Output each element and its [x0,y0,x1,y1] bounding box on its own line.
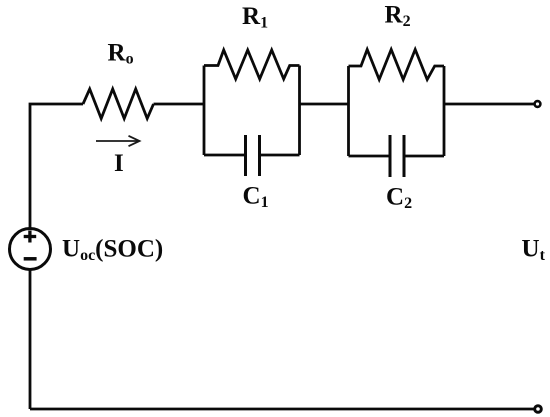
svg-text:R1: R1 [242,3,268,32]
wire between RC blocks [300,103,349,106]
node left of R1C1 block [203,66,206,156]
wire bottom [30,408,534,411]
wire left vertical top [30,104,83,228]
capacitor C1 [204,135,300,176]
terminal bottom right [535,406,542,413]
resistor R2 [349,50,445,80]
voltage source Uoc [10,229,51,270]
svg-text:Ut: Ut [522,236,546,265]
resistor Ro [83,89,154,119]
terminal top right [535,101,541,107]
svg-text:C1: C1 [243,183,269,212]
current arrow I [96,136,140,146]
svg-text:R2: R2 [385,2,411,31]
svg-text:I: I [114,150,124,177]
capacitor C2 [349,135,445,177]
svg-text:C2: C2 [386,184,412,213]
node right of R1C1 block [298,66,301,156]
wire output top [444,103,534,106]
resistor R1 [204,50,300,79]
node left of R2C2 block [347,66,350,156]
wire left vertical bottom [29,270,32,409]
svg-text:Uoc(SOC): Uoc(SOC) [62,236,163,265]
node right of R2C2 block [443,66,446,156]
wire Ro to R1C1 block [154,103,205,106]
svg-text:Ro: Ro [108,40,134,68]
